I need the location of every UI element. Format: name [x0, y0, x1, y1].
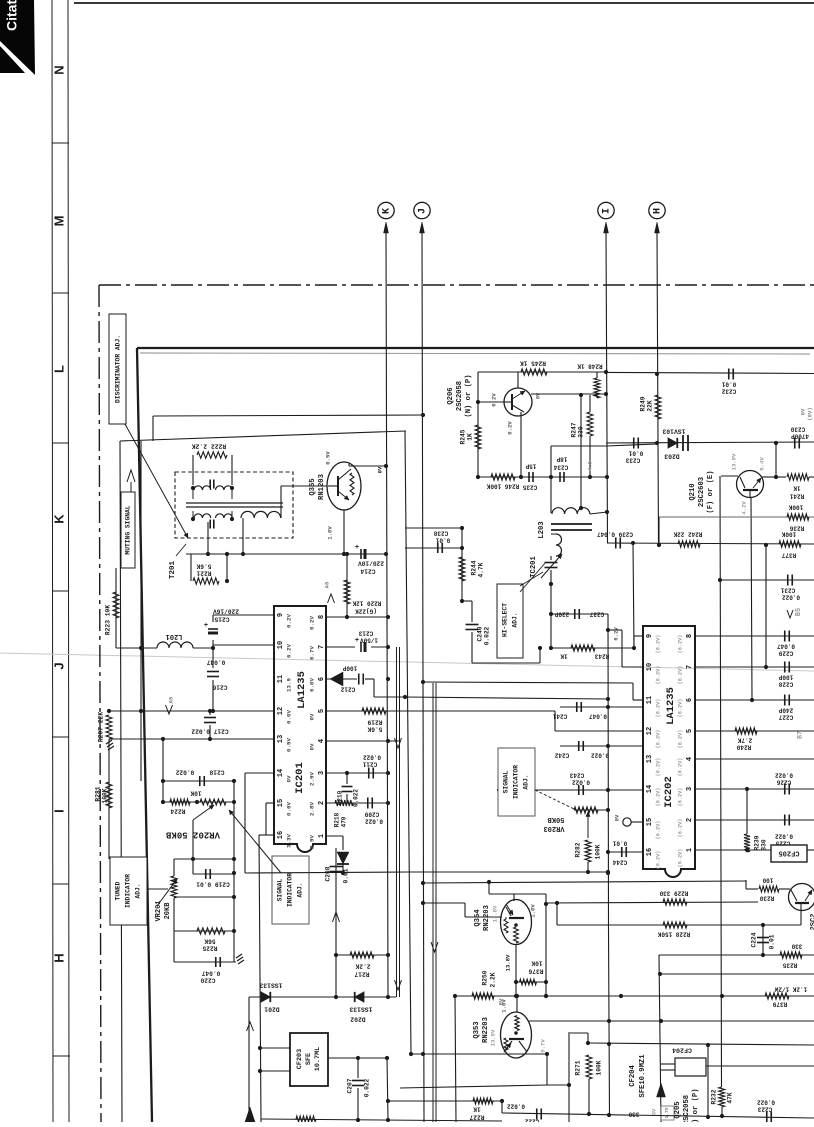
svg-text:47K: 47K — [727, 1092, 734, 1103]
svg-text:5: 5 — [686, 729, 694, 733]
svg-text:3: 3 — [686, 787, 694, 791]
row 1101 wire — [387, 1100, 502, 1102]
op-amp IC202 LA1235 body — [643, 626, 695, 877]
bottom right row wire — [502, 1113, 814, 1118]
pin10 dogleg — [622, 666, 643, 668]
resistor R219 — [362, 708, 386, 714]
svg-text:13.8V: 13.8V — [491, 905, 498, 922]
resistor R222 loop wires — [192, 455, 194, 485]
svg-text:2.9V: 2.9V — [309, 835, 316, 849]
svg-text:D203: D203 — [664, 452, 680, 459]
svg-text:13.8V: 13.8V — [489, 1029, 496, 1046]
capacitor C216 — [207, 671, 219, 673]
resistor R229 — [663, 899, 687, 905]
resistor R244 — [459, 557, 465, 581]
resistor R232 — [719, 1087, 725, 1107]
resistor R221 loop — [190, 554, 192, 581]
pin13 wire — [109, 738, 274, 740]
svg-text:(6.2V): (6.2V) — [677, 730, 683, 749]
x659 vertical down — [659, 955, 661, 1122]
svg-text:R244: R244 — [471, 560, 478, 575]
capacitor C219 — [205, 869, 207, 879]
svg-text:(6.2V): (6.2V) — [677, 849, 683, 868]
bottom resistor — [296, 1116, 316, 1122]
svg-text:0.5V: 0.5V — [286, 738, 293, 752]
svg-text:3V: 3V — [651, 1108, 657, 1115]
resistor R242 — [678, 541, 700, 547]
pin7 row C228 — [695, 666, 814, 668]
svg-text:C226: C226 — [776, 778, 791, 785]
pin8 row C229 — [695, 635, 814, 637]
ruler strip left line — [52, 0, 53, 1122]
svg-text:100K: 100K — [788, 503, 803, 510]
svg-text:R246 100K: R246 100K — [486, 482, 519, 489]
svg-text:0.022: 0.022 — [757, 1098, 775, 1105]
svg-text:4: 4 — [686, 757, 694, 761]
capacitor C210 branch — [346, 773, 348, 784]
svg-text:(6.2V): (6.2V) — [655, 635, 661, 654]
VR201 wiper arrow — [157, 879, 177, 906]
resistor R217 — [350, 952, 374, 958]
Q206 base wire — [478, 401, 504, 403]
svg-text:6.2V: 6.2V — [286, 614, 293, 628]
Q206 right wire — [531, 393, 606, 395]
HI-SELECT leader lines — [520, 572, 543, 586]
svg-text:VR202 50KB: VR202 50KB — [165, 830, 220, 840]
pin9 wire — [213, 614, 274, 616]
svg-text:1: 1 — [318, 834, 326, 838]
resistor R239 — [746, 789, 748, 834]
x633 wire — [633, 543, 634, 648]
svg-text:IC202: IC202 — [663, 776, 675, 808]
pin4 wire — [326, 740, 399, 742]
svg-text:0.5V: 0.5V — [324, 451, 331, 465]
svg-text:15: 15 — [277, 799, 285, 807]
x462 branch — [461, 528, 463, 601]
capacitor C214 — [360, 549, 362, 559]
resistor R247 branch — [589, 395, 591, 412]
resistor R282 — [585, 840, 591, 862]
svg-text:R248 1K: R248 1K — [577, 362, 603, 369]
resistor R245 horizontal — [521, 369, 547, 375]
svg-text:0.022: 0.022 — [507, 1102, 525, 1109]
svg-text:4.7K: 4.7K — [478, 562, 485, 577]
op-amp IC201 LA1235 body — [274, 606, 326, 852]
transistor Q355 RN1203 — [327, 462, 361, 510]
resistor R249 — [655, 395, 661, 419]
row 955 wire — [659, 954, 814, 956]
capacitor C222 — [536, 1109, 538, 1120]
svg-text:L203: L203 — [538, 521, 546, 538]
svg-text:0V: 0V — [535, 392, 541, 399]
svg-text:(6.2V): (6.2V) — [677, 635, 683, 654]
svg-text:IC201: IC201 — [294, 762, 306, 794]
T201 dashed box — [175, 472, 293, 538]
D2 arrow — [431, 942, 438, 952]
svg-text:SIGNAL: SIGNAL — [503, 770, 510, 793]
capacitor C230 — [794, 438, 796, 449]
capacitor C244 — [621, 847, 623, 857]
svg-text:0.01: 0.01 — [435, 536, 450, 543]
svg-text:R229 330: R229 330 — [659, 889, 688, 896]
resistor R248 — [596, 372, 598, 378]
svg-text:ADJ.: ADJ. — [523, 774, 530, 789]
svg-text:R219: R219 — [367, 718, 382, 725]
svg-text:18P: 18P — [556, 455, 567, 462]
I line vertical wire — [606, 233, 608, 543]
VR202 wiper arrow — [193, 805, 214, 820]
svg-text:0V: 0V — [799, 408, 806, 415]
capacitor C213 electrolytic — [360, 642, 362, 652]
svg-text:1K: 1K — [473, 1105, 481, 1112]
capacitor C232 — [728, 369, 730, 380]
wire row 883 J to Q207 area — [423, 881, 746, 883]
svg-text:6.2V: 6.2V — [309, 616, 316, 630]
svg-text:(6.2V): (6.2V) — [677, 788, 683, 807]
svg-text:C218: C218 — [209, 768, 224, 775]
svg-text:R236: R236 — [789, 524, 804, 531]
svg-text:6.7V: 6.7V — [309, 646, 316, 660]
svg-text:C207: C207 — [347, 1078, 354, 1093]
svg-text:+: + — [204, 622, 208, 630]
H line vertical wire — [657, 233, 659, 545]
potentiometer VR203 — [574, 807, 598, 813]
svg-text:6: 6 — [686, 698, 694, 702]
row 925 R228 — [556, 903, 558, 925]
x569 vertical wire — [568, 1032, 570, 1122]
svg-text:20KB: 20KB — [164, 902, 172, 920]
svg-text:C213: C213 — [358, 629, 373, 636]
svg-text:13.9: 13.9 — [286, 678, 293, 692]
svg-text:12: 12 — [646, 727, 654, 735]
svg-text:11: 11 — [646, 696, 654, 704]
svg-text:A5: A5 — [167, 696, 174, 703]
svg-text:R207 22K: R207 22K — [98, 712, 105, 742]
capacitor C209 — [367, 798, 369, 809]
V1 vertical wire x405 — [405, 431, 411, 1054]
C243 row — [499, 789, 643, 791]
svg-text:7: 7 — [686, 665, 694, 669]
CF204 right row — [706, 1065, 814, 1067]
vertical wire x141 — [140, 441, 142, 781]
svg-text:CF203: CF203 — [296, 1049, 304, 1069]
svg-text:R217: R217 — [354, 970, 369, 977]
CF204 arrow — [657, 1083, 666, 1097]
svg-text:1: 1 — [686, 848, 694, 852]
Q210 left wire — [721, 475, 738, 477]
svg-text:L201: L201 — [166, 632, 183, 640]
svg-text:LA1235: LA1235 — [296, 671, 308, 709]
row 902 R229 — [546, 902, 758, 903]
capacitor C237 — [574, 609, 576, 619]
row 1043 wire — [570, 1032, 588, 1034]
transistor Q354 RN2203 — [501, 900, 532, 945]
filter CF203 SFE 10.7ML — [290, 1033, 328, 1086]
svg-text:6.2V: 6.2V — [612, 627, 619, 641]
svg-text:R225: R225 — [202, 944, 217, 951]
ground at C220 — [236, 954, 242, 958]
svg-text:C244: C244 — [612, 858, 627, 865]
C208 branch vertical — [335, 848, 337, 997]
T201 core lines — [186, 502, 283, 504]
transistor Q206 — [504, 388, 532, 416]
svg-text:0.01: 0.01 — [612, 839, 627, 846]
svg-text:RN2203: RN2203 — [483, 905, 491, 931]
leader to VR202 — [229, 810, 281, 873]
svg-text:6.2V: 6.2V — [286, 644, 293, 658]
svg-text:2: 2 — [686, 818, 694, 822]
resistor R230 — [746, 888, 758, 890]
capacitor C220 — [215, 957, 217, 967]
svg-text:VR203: VR203 — [543, 824, 564, 832]
x551 lower wire — [550, 584, 552, 648]
svg-text:R249: R249 — [640, 396, 647, 411]
svg-text:1SV103: 1SV103 — [662, 427, 685, 434]
svg-text:R281: R281 — [95, 786, 102, 801]
D1 arrow — [395, 738, 402, 748]
x163 branch wire — [162, 739, 164, 802]
ruler tick 5 — [52, 736, 69, 738]
ruler tick 6 — [53, 883, 69, 885]
svg-text:+: + — [355, 637, 359, 645]
svg-text:D202: D202 — [350, 1015, 366, 1022]
HI-SELECT ADJ. label — [497, 584, 523, 658]
T201 secondary parallel capacitor — [209, 520, 211, 529]
pin5 row R240 — [695, 730, 814, 732]
svg-text:2.8V: 2.8V — [309, 802, 316, 816]
svg-text:VR201: VR201 — [155, 900, 163, 921]
svg-text:C223: C223 — [757, 1105, 772, 1112]
svg-text:13.0V: 13.0V — [730, 453, 737, 470]
x245 wire pin14 — [244, 773, 246, 873]
x708 vertical wire — [707, 1045, 709, 1117]
svg-text:Q210: Q210 — [689, 483, 697, 500]
svg-text:C233: C233 — [625, 456, 640, 463]
SIGNAL INDICATOR ADJ. label 2 — [498, 748, 535, 816]
svg-text:220P: 220P — [554, 610, 569, 617]
VR201 top row wire — [174, 858, 234, 860]
svg-text:100P: 100P — [778, 673, 793, 680]
capacitor C239 — [615, 538, 617, 549]
resistor R227 — [473, 1098, 493, 1104]
svg-text:A6: A6 — [323, 582, 330, 589]
resistor R376 — [516, 981, 546, 983]
svg-text:R240: R240 — [736, 743, 751, 750]
connector circle J — [414, 202, 430, 218]
row 1085 wire — [400, 1085, 547, 1088]
bottom edge wire — [261, 1119, 502, 1121]
resistor R224 — [170, 799, 190, 805]
L203 core bars — [551, 523, 592, 525]
J row 903 wire — [423, 902, 465, 904]
svg-text:I: I — [602, 208, 613, 214]
dogleg to IC202 pin9 — [633, 636, 635, 648]
svg-text:D201: D201 — [264, 1005, 280, 1012]
capacitor C212 — [358, 674, 360, 685]
Q206 collector wire — [517, 372, 519, 388]
svg-text:2SC2: 2SC2 — [810, 914, 814, 931]
Q207 emitter wire — [800, 904, 802, 925]
svg-text:C222: C222 — [524, 1117, 539, 1122]
C218 row wire — [163, 780, 234, 782]
svg-text:R227: R227 — [469, 1113, 484, 1120]
black corner index tab — [0, 0, 35, 75]
svg-text:R222 2.2K: R222 2.2K — [192, 442, 227, 449]
svg-text:0.047: 0.047 — [777, 642, 795, 649]
svg-text:C239 0.047: C239 0.047 — [597, 530, 633, 537]
svg-text:J: J — [51, 662, 66, 669]
svg-text:220/16V: 220/16V — [213, 607, 239, 614]
row 601 wire — [462, 600, 472, 602]
ruler tick 1 — [52, 142, 69, 144]
T201 secondary winding — [194, 514, 211, 518]
R243 row — [551, 647, 634, 649]
svg-text:4.5: 4.5 — [586, 460, 593, 471]
svg-text:B7: B7 — [797, 731, 804, 739]
capacitor C223 — [766, 1112, 768, 1123]
svg-text:0.022: 0.022 — [364, 1078, 371, 1097]
svg-text:470: 470 — [341, 816, 348, 827]
svg-text:M: M — [51, 216, 66, 227]
svg-text:H: H — [51, 953, 66, 962]
resistor R281 — [106, 782, 112, 808]
svg-text:4700P: 4700P — [791, 432, 809, 439]
svg-text:0.2V: 0.2V — [490, 393, 497, 407]
svg-text:R232: R232 — [711, 1089, 718, 1104]
svg-text:(6.2V): (6.2V) — [677, 666, 683, 685]
varactor D203 1SV103 — [668, 438, 677, 448]
pin5 wire R219 — [326, 710, 555, 712]
step to row 1112 — [501, 1101, 503, 1113]
svg-text:K: K — [382, 208, 393, 214]
svg-text:8: 8 — [686, 634, 694, 638]
svg-text:(6.2V): (6.2V) — [677, 758, 683, 777]
pin3 row C226 — [695, 788, 814, 790]
muting wire to IC202 — [373, 679, 375, 697]
pin15 dogleg — [266, 802, 274, 804]
connector K arrowhead — [384, 222, 389, 233]
svg-text:2SC2603: 2SC2603 — [698, 477, 706, 507]
svg-text:C224: C224 — [751, 932, 758, 947]
branch x213 vertical — [212, 615, 214, 622]
resistor R228 — [663, 922, 687, 928]
svg-text:13: 13 — [646, 755, 654, 763]
x608 bus down — [609, 930, 610, 1115]
C207 branch — [357, 1058, 359, 1078]
svg-text:56K: 56K — [204, 937, 215, 944]
svg-text:(6.2V): (6.2V) — [655, 666, 661, 685]
pin6 wire muting arrow — [326, 678, 357, 680]
svg-text:3.3V: 3.3V — [286, 834, 293, 848]
row 897 wire — [174, 896, 234, 898]
svg-text:T201: T201 — [169, 561, 177, 580]
svg-text:SFE10.9MZ1: SFE10.9MZ1 — [639, 1054, 647, 1098]
svg-text:5: 5 — [318, 709, 326, 713]
L203 tank loop — [550, 446, 552, 513]
MUTING SIGNAL label — [121, 492, 135, 568]
svg-text:5.7V: 5.7V — [539, 1039, 546, 1053]
svg-text:Q355: Q355 — [309, 478, 317, 495]
pin2 wire R218 C209 — [326, 802, 388, 804]
row 444 wire D203 — [606, 442, 814, 443]
muting signal arrow — [127, 470, 135, 482]
svg-text:0.01: 0.01 — [721, 380, 736, 387]
C220 row wire — [173, 931, 175, 962]
C219 row wire — [192, 859, 194, 874]
svg-text:14: 14 — [277, 769, 285, 777]
C244 row — [608, 851, 643, 853]
row 548 wire C238 — [405, 547, 462, 549]
svg-text:TUNED: TUNED — [115, 881, 122, 900]
svg-text:1.0V: 1.0V — [326, 526, 333, 540]
svg-text:15P: 15P — [525, 462, 536, 469]
svg-text:10K: 10K — [190, 789, 201, 796]
svg-text:0V: 0V — [376, 466, 383, 473]
svg-text:H: H — [653, 208, 664, 214]
A5 signal arrow — [166, 705, 173, 714]
svg-text:(6.2V): (6.2V) — [655, 730, 661, 749]
resistor R250 — [472, 993, 494, 999]
svg-text:100K: 100K — [102, 788, 109, 803]
svg-text:R223 10K: R223 10K — [105, 605, 112, 635]
svg-text:6.0V: 6.0V — [309, 678, 316, 692]
svg-text:4.2V: 4.2V — [740, 501, 747, 515]
connector I arrowhead — [604, 222, 609, 233]
capacitor C241 — [576, 702, 578, 712]
resistor R377 — [779, 541, 801, 547]
T201 primary winding — [194, 486, 211, 490]
svg-text:16: 16 — [277, 831, 285, 839]
svg-text:R271: R271 — [575, 1060, 582, 1075]
svg-text:R379: R379 — [772, 1000, 787, 1007]
svg-text:(N) or (P): (N) or (P) — [465, 374, 473, 417]
signal arrow on D201 line — [247, 1022, 254, 1031]
Q355 base wire — [281, 485, 327, 487]
svg-text:C232: C232 — [721, 387, 736, 394]
svg-text:(6.2V): (6.2V) — [677, 699, 683, 718]
pin8 wire — [326, 616, 388, 618]
diode D204 — [342, 836, 344, 850]
svg-text:C220: C220 — [200, 976, 215, 983]
svg-text:Citation: Citation — [4, 0, 20, 31]
svg-text:1.0V: 1.0V — [529, 904, 536, 918]
SIGNAL INDICATOR ADJ. label 1 — [272, 856, 309, 924]
svg-text:R235: R235 — [782, 961, 797, 968]
V1 row 699 to bus — [405, 697, 608, 699]
row 517 R236 — [659, 516, 814, 518]
svg-text:(6.2V): (6.2V) — [655, 699, 661, 718]
T201 primary parallel capacitor — [209, 480, 211, 489]
svg-text:K: K — [51, 514, 66, 524]
filter CF204 box — [675, 1058, 706, 1076]
svg-text:0.047: 0.047 — [589, 712, 607, 719]
pin7 wire with C213 — [326, 646, 355, 648]
svg-text:(6.2V): (6.2V) — [677, 819, 683, 838]
svg-text:11: 11 — [277, 675, 285, 683]
CF203 stub lower — [260, 1070, 290, 1072]
resistor R243 — [571, 645, 595, 651]
svg-text:13: 13 — [277, 735, 285, 743]
svg-text:R239: R239 — [754, 835, 761, 850]
svg-text:R228 150K: R228 150K — [657, 930, 690, 937]
svg-text:C216: C216 — [212, 683, 227, 690]
svg-text:ADJ.: ADJ. — [512, 612, 519, 627]
svg-text:Q206: Q206 — [447, 387, 455, 404]
svg-text:1.0V: 1.0V — [500, 999, 507, 1013]
svg-text:C241: C241 — [552, 712, 567, 719]
CF203 stub upper — [260, 1047, 290, 1049]
pin12 wire long — [109, 710, 274, 712]
